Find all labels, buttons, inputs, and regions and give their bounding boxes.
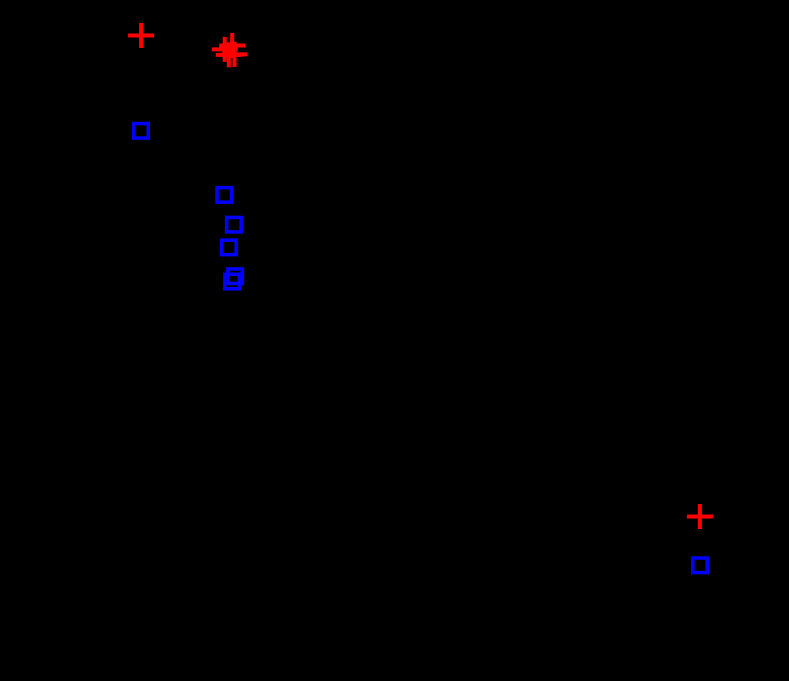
blue square marker S4 [222, 240, 237, 255]
red plus marker P6 [687, 504, 713, 529]
red plus marker P2 [219, 33, 245, 58]
red plus marker P1 [128, 23, 154, 48]
blue square marker S7 [693, 558, 708, 573]
blue square marker S6 [225, 274, 240, 289]
blue square marker S3 [227, 217, 242, 232]
red plus marker P4 [216, 42, 242, 67]
blue square marker S1 [134, 124, 149, 139]
red plus marker P5 [222, 42, 248, 67]
blue square marker S5 [228, 269, 243, 284]
red plus marker P3 [212, 37, 238, 62]
blue square marker S2 [217, 188, 232, 203]
